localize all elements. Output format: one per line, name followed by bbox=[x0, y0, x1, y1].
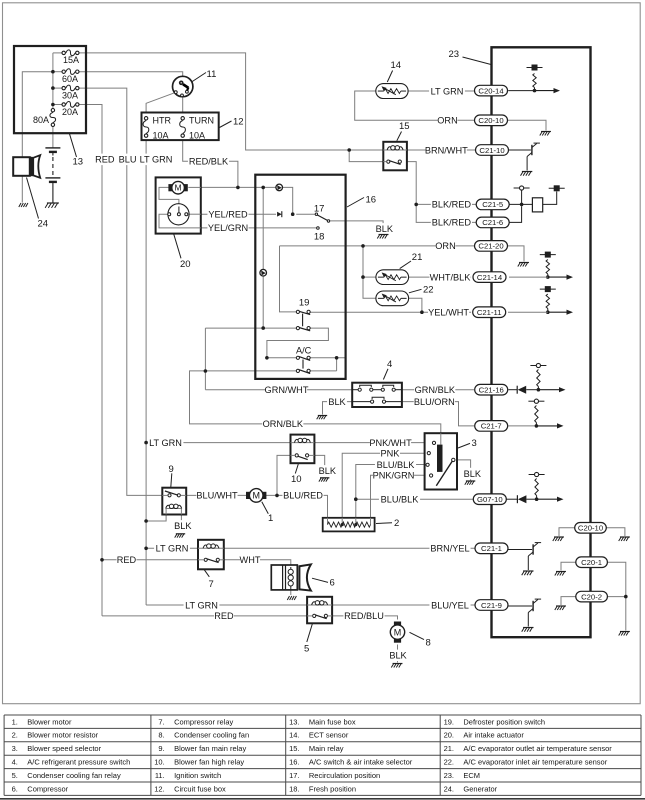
svg-text:15A: 15A bbox=[63, 55, 79, 65]
svg-text:Blower speed selector: Blower speed selector bbox=[27, 744, 101, 753]
svg-text:7.: 7. bbox=[158, 717, 164, 726]
svg-text:Air intake actuator: Air intake actuator bbox=[463, 731, 524, 740]
svg-text:7: 7 bbox=[209, 579, 214, 590]
svg-text:C21-5: C21-5 bbox=[482, 200, 503, 209]
svg-text:11.: 11. bbox=[155, 771, 165, 780]
svg-text:M: M bbox=[175, 183, 182, 193]
svg-text:LT GRN: LT GRN bbox=[140, 155, 173, 165]
svg-text:2: 2 bbox=[394, 518, 399, 529]
svg-text:LT GRN: LT GRN bbox=[185, 600, 218, 610]
svg-text:21.: 21. bbox=[444, 744, 454, 753]
svg-text:ORN/BLK: ORN/BLK bbox=[263, 419, 304, 429]
svg-text:ECM: ECM bbox=[463, 771, 480, 780]
svg-text:21: 21 bbox=[412, 252, 423, 263]
svg-text:17: 17 bbox=[314, 203, 325, 214]
svg-text:C21-7: C21-7 bbox=[481, 422, 502, 431]
svg-text:M: M bbox=[394, 627, 402, 637]
svg-text:3: 3 bbox=[472, 438, 477, 449]
svg-text:C21-10: C21-10 bbox=[479, 146, 504, 155]
svg-text:C21-1: C21-1 bbox=[481, 544, 502, 553]
svg-text:14: 14 bbox=[391, 60, 402, 71]
svg-text:YEL/RED: YEL/RED bbox=[208, 210, 248, 220]
svg-text:3.: 3. bbox=[12, 744, 18, 753]
svg-text:60A: 60A bbox=[62, 74, 78, 84]
svg-text:BLU/BLK: BLU/BLK bbox=[381, 495, 420, 505]
svg-text:10A: 10A bbox=[189, 130, 205, 140]
svg-text:RED/BLU: RED/BLU bbox=[344, 611, 384, 621]
svg-text:C20-2: C20-2 bbox=[581, 592, 602, 601]
svg-text:9: 9 bbox=[169, 464, 174, 475]
svg-text:Condenser cooling fan: Condenser cooling fan bbox=[174, 731, 249, 740]
svg-text:BLK/RED: BLK/RED bbox=[432, 200, 472, 210]
svg-text:BLK: BLK bbox=[389, 651, 407, 661]
svg-text:GRN/BLK: GRN/BLK bbox=[415, 385, 456, 395]
svg-text:12.: 12. bbox=[154, 784, 164, 793]
svg-text:PNK/WHT: PNK/WHT bbox=[369, 438, 412, 448]
svg-text:WHT: WHT bbox=[240, 555, 261, 565]
svg-text:RED/BLK: RED/BLK bbox=[189, 157, 229, 167]
svg-text:C21-6: C21-6 bbox=[482, 218, 503, 227]
svg-text:8.: 8. bbox=[158, 731, 164, 740]
svg-text:13.: 13. bbox=[289, 717, 299, 726]
svg-text:HTR: HTR bbox=[153, 115, 172, 125]
svg-text:Fresh position: Fresh position bbox=[309, 784, 356, 793]
svg-text:RED: RED bbox=[214, 611, 234, 621]
svg-text:Compressor relay: Compressor relay bbox=[174, 717, 233, 726]
svg-text:BLU/BLK: BLU/BLK bbox=[377, 460, 416, 470]
svg-text:23.: 23. bbox=[444, 771, 454, 780]
svg-text:BLK: BLK bbox=[328, 397, 346, 407]
svg-text:Compressor: Compressor bbox=[27, 784, 68, 793]
svg-text:10A: 10A bbox=[153, 130, 169, 140]
svg-text:20: 20 bbox=[180, 259, 191, 270]
svg-text:A/C switch & air intake select: A/C switch & air intake selector bbox=[309, 758, 413, 767]
svg-text:4: 4 bbox=[387, 359, 392, 370]
svg-text:A/C evaporator inlet air tempe: A/C evaporator inlet air temperature sen… bbox=[463, 758, 607, 767]
svg-text:23: 23 bbox=[449, 49, 460, 60]
svg-text:Blower motor: Blower motor bbox=[27, 717, 72, 726]
svg-text:11: 11 bbox=[207, 69, 217, 80]
svg-text:BLK: BLK bbox=[319, 466, 337, 476]
svg-text:1.: 1. bbox=[12, 717, 18, 726]
svg-text:YEL/GRN: YEL/GRN bbox=[208, 223, 248, 233]
svg-text:6: 6 bbox=[330, 577, 335, 588]
svg-text:19: 19 bbox=[299, 297, 310, 308]
svg-text:Blower fan main relay: Blower fan main relay bbox=[174, 744, 246, 753]
svg-text:PNK: PNK bbox=[381, 449, 401, 459]
svg-text:BLU/ORN: BLU/ORN bbox=[414, 397, 455, 407]
svg-text:24.: 24. bbox=[444, 784, 454, 793]
svg-text:10.: 10. bbox=[154, 758, 164, 767]
svg-text:G07-10: G07-10 bbox=[477, 495, 503, 504]
svg-text:9.: 9. bbox=[158, 744, 164, 753]
svg-text:TURN: TURN bbox=[189, 115, 214, 125]
svg-text:5: 5 bbox=[304, 643, 309, 654]
svg-text:A/C: A/C bbox=[296, 345, 312, 355]
svg-text:ECT sensor: ECT sensor bbox=[309, 731, 349, 740]
svg-text:10: 10 bbox=[291, 474, 302, 485]
svg-text:15.: 15. bbox=[289, 744, 299, 753]
svg-text:M: M bbox=[252, 491, 260, 501]
svg-text:C21-11: C21-11 bbox=[477, 308, 502, 317]
svg-text:16: 16 bbox=[366, 194, 377, 205]
svg-text:24: 24 bbox=[38, 219, 49, 230]
svg-text:A/C refrigerant pressure switc: A/C refrigerant pressure switch bbox=[27, 758, 130, 767]
svg-text:8: 8 bbox=[426, 637, 431, 648]
svg-text:Ignition switch: Ignition switch bbox=[174, 771, 221, 780]
svg-text:LT GRN: LT GRN bbox=[149, 438, 182, 448]
svg-text:BRN/YEL: BRN/YEL bbox=[430, 544, 469, 554]
svg-text:LT GRN: LT GRN bbox=[156, 544, 189, 554]
svg-text:Circuit fuse box: Circuit fuse box bbox=[174, 784, 226, 793]
svg-text:Condenser cooling fan relay: Condenser cooling fan relay bbox=[27, 771, 121, 780]
svg-text:20.: 20. bbox=[444, 731, 454, 740]
svg-text:C21-20: C21-20 bbox=[478, 242, 503, 251]
svg-text:80A: 80A bbox=[33, 115, 49, 125]
svg-text:Defroster position switch: Defroster position switch bbox=[463, 717, 545, 726]
svg-text:Recirculation position: Recirculation position bbox=[309, 771, 380, 780]
svg-text:C20-10: C20-10 bbox=[478, 116, 503, 125]
svg-text:6.: 6. bbox=[12, 784, 18, 793]
svg-text:2.: 2. bbox=[12, 731, 18, 740]
svg-text:ORN: ORN bbox=[435, 241, 455, 251]
svg-text:BLU/YEL: BLU/YEL bbox=[431, 600, 469, 610]
svg-text:C21-14: C21-14 bbox=[477, 273, 503, 282]
svg-text:BLK: BLK bbox=[464, 469, 482, 479]
svg-text:BRN/WHT: BRN/WHT bbox=[425, 145, 468, 155]
svg-text:17.: 17. bbox=[289, 771, 299, 780]
svg-text:1: 1 bbox=[268, 513, 273, 524]
svg-text:12: 12 bbox=[233, 117, 244, 128]
svg-text:C21-16: C21-16 bbox=[479, 385, 504, 394]
svg-text:16.: 16. bbox=[289, 758, 299, 767]
svg-text:Blower motor resistor: Blower motor resistor bbox=[27, 731, 98, 740]
svg-text:YEL/WHT: YEL/WHT bbox=[428, 308, 469, 318]
svg-text:5.: 5. bbox=[12, 771, 18, 780]
svg-text:RED: RED bbox=[95, 155, 115, 165]
svg-text:15: 15 bbox=[399, 121, 410, 132]
svg-text:BLK: BLK bbox=[376, 224, 394, 234]
svg-text:BLU: BLU bbox=[119, 155, 137, 165]
svg-text:14.: 14. bbox=[289, 731, 299, 740]
svg-text:18.: 18. bbox=[289, 784, 299, 793]
svg-text:19.: 19. bbox=[444, 717, 454, 726]
svg-text:RED: RED bbox=[117, 555, 137, 565]
svg-text:Blower fan high relay: Blower fan high relay bbox=[174, 758, 244, 767]
svg-text:13: 13 bbox=[73, 157, 84, 168]
svg-text:Main relay: Main relay bbox=[309, 744, 344, 753]
svg-text:BLU/RED: BLU/RED bbox=[283, 491, 323, 501]
svg-text:20A: 20A bbox=[62, 107, 78, 117]
svg-text:BLU/WHT: BLU/WHT bbox=[196, 491, 238, 501]
svg-text:BLK/RED: BLK/RED bbox=[432, 218, 472, 228]
svg-text:PNK/GRN: PNK/GRN bbox=[373, 471, 415, 481]
svg-text:ORN: ORN bbox=[437, 116, 457, 126]
svg-text:C21-9: C21-9 bbox=[481, 601, 502, 610]
svg-text:22.: 22. bbox=[444, 758, 454, 767]
svg-text:30A: 30A bbox=[62, 90, 78, 100]
svg-text:Main fuse box: Main fuse box bbox=[309, 717, 356, 726]
svg-text:LT GRN: LT GRN bbox=[431, 86, 464, 96]
svg-text:GRN/WHT: GRN/WHT bbox=[265, 385, 309, 395]
svg-text:C20-1: C20-1 bbox=[581, 558, 602, 567]
svg-text:A/C evaporator outlet air temp: A/C evaporator outlet air temperature se… bbox=[463, 744, 612, 753]
svg-text:Generator: Generator bbox=[463, 784, 497, 793]
svg-text:4.: 4. bbox=[12, 758, 18, 767]
svg-text:BLK: BLK bbox=[174, 521, 192, 531]
svg-text:C20-10: C20-10 bbox=[578, 524, 603, 533]
svg-text:WHT/BLK: WHT/BLK bbox=[430, 272, 472, 282]
svg-text:18: 18 bbox=[314, 232, 325, 243]
svg-text:C20-14: C20-14 bbox=[478, 86, 504, 95]
svg-text:22: 22 bbox=[423, 284, 434, 295]
